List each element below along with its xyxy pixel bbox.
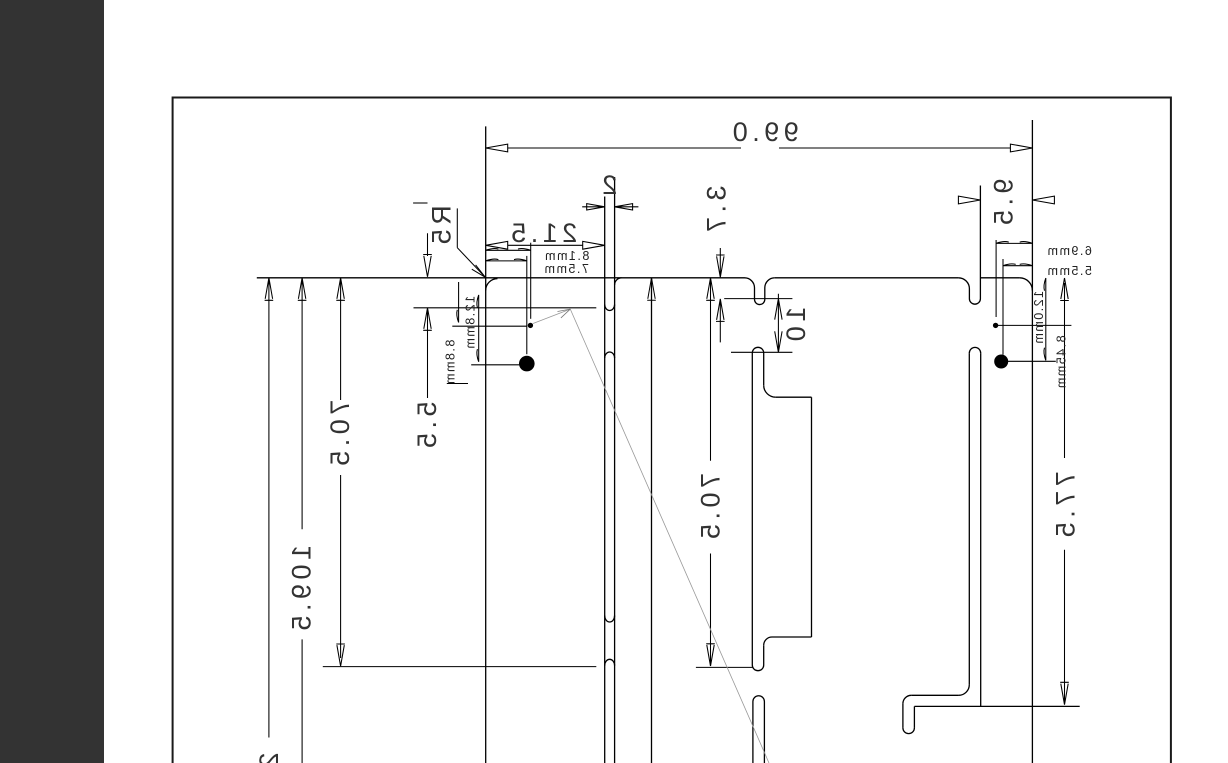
svg-text:21.5: 21.5 xyxy=(507,218,578,248)
bone to edge fillet xyxy=(615,278,622,285)
dim 99.0 line xyxy=(508,147,1011,149)
hat flange bottom line xyxy=(772,636,812,638)
hat flange bottom fillet xyxy=(764,637,772,645)
dim 10 bottom line xyxy=(731,351,792,353)
J sheet top cap xyxy=(969,347,980,353)
dim 77.5 line xyxy=(1060,278,1069,705)
hat flange right line xyxy=(811,397,813,637)
J sheet outer line xyxy=(968,353,970,684)
hat flange top fillet xyxy=(764,385,776,397)
middle line up arrow xyxy=(647,278,656,301)
hole dot small right xyxy=(993,323,998,328)
hat sheet bottom cap xyxy=(752,665,763,671)
svg-text:70.5: 70.5 xyxy=(695,473,725,544)
dim 21.5 right arrow xyxy=(583,241,605,249)
svg-text:7.5mm: 7.5mm xyxy=(543,262,589,276)
J outer bottom fillet xyxy=(959,685,970,696)
hole centerline small right xyxy=(995,240,997,317)
tick line 12.0 right xyxy=(1044,278,1046,360)
dim 3.7 upper arrow xyxy=(716,248,725,277)
svg-text:25: 25 xyxy=(254,752,284,763)
hat sheet left line xyxy=(751,353,753,665)
dim 70.5 right bottom arrow xyxy=(706,644,715,666)
top edge right corner fillet xyxy=(1019,278,1032,291)
dim 5.5 up arrow xyxy=(423,308,432,398)
right slot xyxy=(958,186,980,305)
hline small dot right xyxy=(996,324,1072,326)
J left outer line xyxy=(902,704,904,728)
dim 70.5 left bottom extension line xyxy=(323,666,597,668)
svg-text:12.8mm: 12.8mm xyxy=(464,296,478,350)
svg-text:10: 10 xyxy=(781,307,811,346)
dim 5.5 down arrow xyxy=(423,233,432,276)
svg-text:5.5: 5.5 xyxy=(412,401,442,452)
hat sheet right line upper xyxy=(763,353,765,385)
sheet section (bone) right line xyxy=(614,177,616,763)
dim 99.0 left arrow xyxy=(486,144,508,152)
dim 77.5 bottom arrow xyxy=(1060,682,1069,704)
dim 21.5 left arrow xyxy=(486,241,508,249)
middle vertical line xyxy=(651,278,653,763)
dim 99.0 right arrow xyxy=(1010,144,1032,152)
R5 leader arrowhead xyxy=(472,265,485,277)
J bottom line xyxy=(911,694,958,696)
left arrow line 2 (109.5) xyxy=(298,278,307,763)
part bottom surface line xyxy=(914,705,1079,707)
step line right xyxy=(724,298,792,300)
J left inner line xyxy=(913,706,915,728)
J inner line xyxy=(980,353,982,706)
hat sheet right line lower xyxy=(763,645,765,665)
R5 leader shoulder xyxy=(456,208,458,247)
hole dot big left xyxy=(519,356,535,372)
hline big dot right xyxy=(1008,360,1056,362)
hole dot small left xyxy=(528,323,533,328)
long diagonal leader line xyxy=(570,309,769,763)
left face corner fillet R5 xyxy=(486,279,498,291)
svg-text:99.0: 99.0 xyxy=(728,117,799,147)
tick line 12.8 left xyxy=(477,295,479,362)
dim 10 line xyxy=(775,294,782,353)
part right face line xyxy=(1031,120,1033,763)
sheet section (bone) left line xyxy=(604,197,606,763)
svg-text:5.5mm: 5.5mm xyxy=(1046,264,1092,278)
hole centerline small left xyxy=(530,243,532,319)
dim 6.9mm line xyxy=(996,242,1032,244)
dim 2 right arrow xyxy=(615,204,639,210)
dim 9.5 left arrow xyxy=(958,196,980,204)
lower sheet piece lines xyxy=(753,702,765,763)
dim 9.5 right arrow xyxy=(1032,196,1054,204)
svg-text:12.0mm: 12.0mm xyxy=(1032,291,1046,345)
dim 70.5 left bottom arrow xyxy=(336,644,345,666)
svg-text:70.5: 70.5 xyxy=(325,400,355,471)
step line left (5.5 level) xyxy=(414,307,597,309)
hole centerline big right xyxy=(1002,259,1004,355)
bone break arcs xyxy=(605,305,615,311)
left arrow line 3 (70.5) xyxy=(336,278,345,658)
part top edge xyxy=(257,277,1020,279)
svg-text:77.5: 77.5 xyxy=(1050,471,1080,542)
dim 3.7 lower arrow xyxy=(716,299,725,343)
tick line 8.8 left xyxy=(457,282,459,323)
left face vertical line xyxy=(485,126,487,763)
hat flange top line xyxy=(776,396,812,398)
svg-text:R5: R5 xyxy=(426,205,456,249)
dim 5.5 top bar xyxy=(413,202,427,204)
svg-text:8.1mm: 8.1mm xyxy=(544,249,590,263)
leader from small dot xyxy=(533,309,570,323)
sidebar xyxy=(0,0,104,763)
left notch xyxy=(745,278,775,305)
dim 70.5 right line xyxy=(706,278,715,666)
hline small dot left xyxy=(452,325,527,327)
svg-text:6.9mm: 6.9mm xyxy=(1046,244,1092,258)
hole dot big right xyxy=(994,355,1008,369)
dim 5.5mm line xyxy=(1003,264,1032,266)
svg-text:2: 2 xyxy=(598,170,618,200)
dim 70.5 right bottom extension xyxy=(696,666,753,668)
R5 leader diagonal xyxy=(457,248,485,278)
leader arrowhead xyxy=(558,309,571,318)
dim 2 left arrow xyxy=(582,204,605,210)
dim 8.1mm line xyxy=(486,248,531,250)
drawing frame border xyxy=(173,98,1171,763)
svg-text:3.7: 3.7 xyxy=(701,185,731,236)
lower sheet piece cap xyxy=(753,696,765,702)
hole centerline big left xyxy=(526,256,528,354)
left arrow line 1 (109.5 outer) xyxy=(265,278,274,738)
J bottom U cap xyxy=(903,728,915,734)
svg-text:8.45mm: 8.45mm xyxy=(1055,335,1069,389)
hat sheet top cap xyxy=(752,347,763,353)
svg-text:109.5: 109.5 xyxy=(287,545,317,635)
svg-text:8.8mm: 8.8mm xyxy=(444,340,458,386)
svg-text:9.5: 9.5 xyxy=(988,178,1018,229)
dim 21.5 line xyxy=(508,244,583,246)
dim 7.5mm line xyxy=(486,259,527,261)
J left fillet xyxy=(903,695,911,703)
hline 8.8 bottom tick xyxy=(447,383,468,385)
hline big dot left xyxy=(471,364,519,366)
